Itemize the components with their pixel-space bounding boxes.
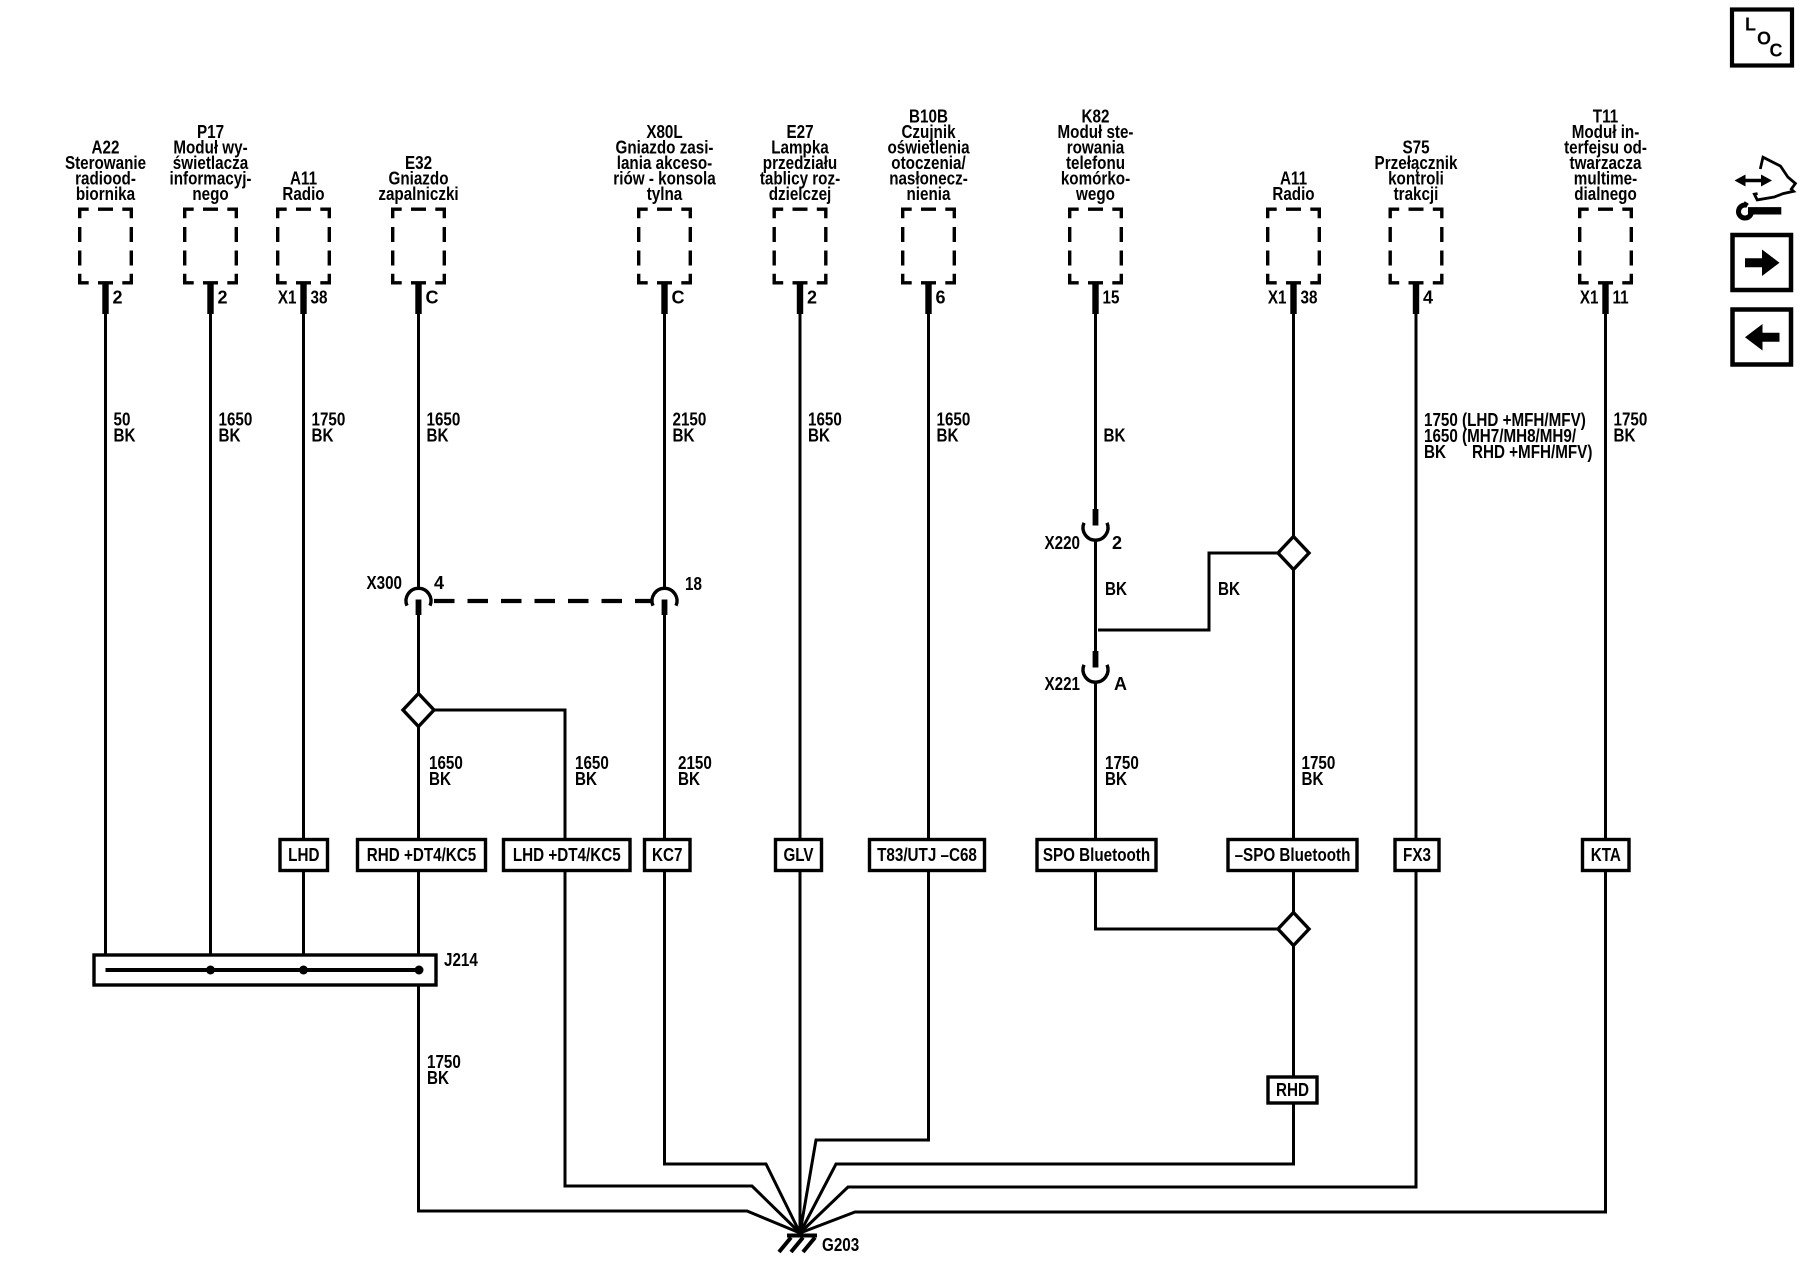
wire A11 pin 38 to splice J214, circuit 1750 BK [302, 285, 305, 971]
svg-text:J214: J214 [444, 950, 478, 970]
connector E32: Gniazdo zapalniczki [378, 153, 458, 314]
svg-text:BK: BK [1104, 426, 1126, 446]
label circuit 1650 BK below diamond (RHD) [429, 753, 463, 789]
svg-text:38: 38 [1301, 288, 1318, 308]
connector A11: Radio [278, 169, 330, 315]
svg-text:6: 6 [936, 288, 946, 308]
svg-text:BK: BK [1218, 579, 1240, 599]
connector A11: Radio [1268, 169, 1320, 315]
wire branch LHD +DT4/KC5 to ground, circuit 1650 BK [434, 710, 801, 1233]
svg-text:15: 15 [1103, 288, 1120, 308]
label circuit 1750/1650 BK with options (S75) [1424, 410, 1592, 462]
svg-text:LHD +DT4/KC5: LHD +DT4/KC5 [513, 845, 621, 865]
ground G203 [779, 1235, 859, 1255]
svg-text:Radio: Radio [282, 184, 324, 204]
svg-text:BK: BK [427, 426, 449, 446]
wire B10B pin 6 to ground G203, circuit 1650 BK [800, 285, 929, 1234]
connector A22: Sterowanie radiood- biornika [65, 138, 146, 315]
svg-text:RHD +MFH/MFV): RHD +MFH/MFV) [1472, 442, 1592, 462]
svg-text:X300: X300 [367, 573, 403, 593]
wire X220 to X221, circuit BK [1094, 540, 1097, 652]
svg-text:nego: nego [192, 184, 228, 204]
label circuit 1650 BK branch (LHD) [575, 753, 609, 789]
connector X80L: Gniazdo zasi- lania akceso- riów - konsola tylna [613, 122, 716, 314]
svg-text:–SPO Bluetooth: –SPO Bluetooth [1235, 845, 1351, 865]
label X300 [367, 573, 403, 593]
svg-text:RHD +DT4/KC5: RHD +DT4/KC5 [367, 845, 477, 865]
wire K82 pin 15 to connector X220, circuit BK [1094, 285, 1097, 511]
label circuit 2150 BK (KC7) [678, 753, 712, 789]
svg-text:L: L [1745, 15, 1756, 35]
svg-text:C: C [672, 288, 685, 308]
qualifier box FX3 [1395, 840, 1439, 871]
svg-text:BK: BK [808, 426, 830, 446]
svg-text:18: 18 [685, 574, 702, 594]
svg-text:G203: G203 [822, 1235, 859, 1255]
svg-text:tylna: tylna [647, 184, 683, 204]
svg-text:BK: BK [575, 769, 597, 789]
qualifier box KTA [1583, 840, 1630, 871]
qualifier box LHD +DT4/KC5 [504, 840, 631, 871]
pin A label [1114, 674, 1127, 694]
inline connector X300 pin 4 (on E32 wire) [406, 588, 431, 615]
icon arrow next page (right) [1733, 235, 1792, 290]
label X221 [1045, 674, 1081, 694]
pin 4 label [434, 573, 444, 593]
svg-text:wego: wego [1075, 184, 1115, 204]
svg-text:KTA: KTA [1591, 845, 1621, 865]
icon arrow previous page (left) [1733, 310, 1792, 365]
inline connector pin 18 (on X80L wire) [652, 588, 677, 615]
splice diamond on E32 wire (RHD/LHD branch) [403, 694, 434, 727]
svg-text:BK: BK [429, 769, 451, 789]
svg-text:BK: BK [678, 769, 700, 789]
wire P17 pin 2 to splice J214, circuit 1650 BK [209, 285, 212, 971]
qualifier box –SPO Bluetooth [1228, 840, 1357, 871]
svg-text:X221: X221 [1045, 674, 1081, 694]
svg-text:BK: BK [427, 1068, 449, 1088]
qualifier box T83/UTJ –C68 [870, 840, 985, 871]
inline connector X220 pin 2 (on K82 wire) [1083, 509, 1108, 540]
label circuit 2150 BK [673, 410, 707, 446]
label circuit 1750 BK (T11) [1614, 410, 1648, 446]
svg-text:zapalniczki: zapalniczki [378, 184, 458, 204]
splice diamond joining SPO Bluetooth wire [1278, 913, 1309, 946]
svg-text:4: 4 [434, 573, 444, 593]
label circuit 1650 BK [219, 410, 253, 446]
svg-text:dialnego: dialnego [1574, 184, 1637, 204]
svg-text:X220: X220 [1045, 533, 1081, 553]
svg-text:X1: X1 [1268, 288, 1287, 308]
label circuit BK on branch from radio diamond [1218, 579, 1240, 599]
pin 18 label [685, 574, 702, 594]
qualifier box RHD [1268, 1077, 1317, 1103]
connector E27: Lampka przedziału tablicy roz- dzielczej [760, 122, 840, 314]
qualifier box LHD [280, 840, 328, 871]
svg-text:nienia: nienia [907, 184, 952, 204]
icon LOC box [1732, 10, 1792, 66]
svg-text:BK: BK [1614, 426, 1636, 446]
label circuit BK between X220 and X221 [1105, 579, 1127, 599]
svg-text:BK: BK [1424, 442, 1446, 462]
svg-text:GLV: GLV [783, 845, 813, 865]
label circuit 1750 BK below radio diamond [1302, 753, 1336, 789]
wire X221 pin A to diamond join, circuit 1750 BK [1096, 681, 1278, 929]
label circuit 50 BK [114, 410, 136, 446]
inline connector X221 pin A (on K82 wire) [1083, 651, 1108, 682]
wire X80L pin C to connector pin 18, circuit 2150 BK [663, 285, 666, 589]
wire S75 pin 4 to ground G203, circuit 1750/1650 BK [800, 285, 1416, 1234]
svg-text:BK: BK [1105, 579, 1127, 599]
svg-text:A: A [1114, 674, 1127, 694]
connector S75: Przełącznik kontroli trakcji [1375, 138, 1459, 315]
label circuit 1650 BK [937, 410, 971, 446]
label circuit 1750 BK [312, 410, 346, 446]
wire E27 pin 2 to ground G203, circuit 1650 BK [799, 285, 802, 1234]
qualifier box SPO Bluetooth [1037, 840, 1156, 871]
svg-text:T83/UTJ –C68: T83/UTJ –C68 [877, 845, 977, 865]
wire T11 pin 11 to ground G203, circuit 1750 BK [800, 285, 1606, 1234]
splice pack J214 [94, 950, 478, 985]
svg-text:BK: BK [937, 426, 959, 446]
connector K82: Moduł ste- rowania telefonu komórko- wego [1058, 107, 1134, 315]
svg-text:SPO Bluetooth: SPO Bluetooth [1043, 845, 1150, 865]
label circuit 1750 BK below J214 [427, 1052, 461, 1088]
svg-text:LHD: LHD [288, 845, 319, 865]
connector B10B: Czujnik oświetlenia otoczenia/ nasłonecz- nienia [887, 107, 970, 315]
label X220 [1045, 533, 1081, 553]
svg-text:BK: BK [673, 426, 695, 446]
dashed mechanical tie between connector X300 pin 4 and pin 18 [434, 599, 652, 603]
svg-text:Radio: Radio [1272, 184, 1314, 204]
qualifier box KC7 [645, 840, 691, 871]
label circuit 1650 BK [808, 410, 842, 446]
wire E32 pin C to connector X300, circuit 1650 BK [417, 285, 420, 589]
label circuit BK (K82) [1104, 426, 1126, 446]
svg-text:X1: X1 [1580, 288, 1599, 308]
svg-text:biornika: biornika [76, 184, 136, 204]
pin 2 label [1112, 533, 1122, 553]
svg-text:11: 11 [1613, 288, 1629, 308]
svg-text:BK: BK [1105, 769, 1127, 789]
svg-text:KC7: KC7 [652, 845, 682, 865]
svg-text:dzielczej: dzielczej [769, 184, 832, 204]
svg-text:X1: X1 [278, 288, 297, 308]
svg-text:2: 2 [1112, 533, 1122, 553]
connector T11: Moduł in- terfejsu od- twarzacza multime- dialnego [1564, 107, 1647, 315]
label circuit 1650 BK [427, 410, 461, 446]
icon vehicle service information (arrow, car outline, wrench) [1735, 157, 1796, 218]
svg-text:2: 2 [113, 288, 123, 308]
splice diamond on A11 radio wire (branch to K82) [1278, 537, 1309, 570]
svg-text:C: C [1770, 40, 1783, 60]
svg-text:C: C [426, 288, 439, 308]
label circuit 1750 BK below X221 [1105, 753, 1139, 789]
svg-text:trakcji: trakcji [1394, 184, 1439, 204]
svg-text:RHD: RHD [1276, 1080, 1309, 1100]
svg-text:BK: BK [1302, 769, 1324, 789]
svg-text:38: 38 [311, 288, 328, 308]
connector P17: Moduł wy- świetlacza informacyj- nego [170, 122, 252, 314]
svg-text:BK: BK [219, 426, 241, 446]
wire X300 pin 4 through splice J214 to ground, circuit 1650/1750 BK [419, 614, 801, 1233]
svg-text:FX3: FX3 [1403, 845, 1431, 865]
svg-text:BK: BK [114, 426, 136, 446]
svg-text:2: 2 [218, 288, 228, 308]
qualifier box RHD +DT4/KC5 [358, 840, 486, 871]
wire pin 18 to ground G203, circuit 2150 BK [665, 614, 801, 1233]
svg-text:BK: BK [312, 426, 334, 446]
qualifier box GLV [776, 840, 822, 871]
wire branch from radio diamond to K82 wire, circuit BK [1098, 553, 1278, 630]
svg-text:4: 4 [1423, 288, 1433, 308]
wire A22 pin 2 to splice J214, circuit 50 BK [104, 285, 107, 971]
wire A11 pin 38 through diamonds to RHD/ground, circuit 1750 BK [800, 285, 1294, 1234]
svg-text:2: 2 [807, 288, 817, 308]
